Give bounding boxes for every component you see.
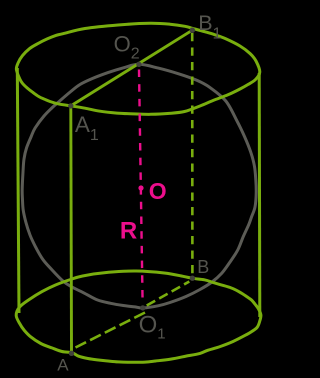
cylinder left generator [17,68,19,313]
point A [69,351,74,356]
hidden generator B B1 (dashed) [191,33,194,275]
cylinder bottom ellipse [16,271,261,362]
point A1 [68,103,73,108]
cylinder top ellipse [16,23,259,114]
axis O2 O1 (dashed magenta) [139,70,143,303]
svg-text:R: R [120,217,137,244]
point O1 [140,305,145,310]
svg-text:A: A [57,356,69,375]
point O2 [136,62,141,67]
svg-text:O: O [149,178,167,204]
point B1 [190,28,195,33]
radius O1 B (dashed) [147,282,190,306]
generator A A1 [69,106,73,353]
point O (magenta) [138,185,143,190]
svg-text:B: B [197,257,209,277]
sphere O inscribed in the cylinder [22,64,256,308]
cylinder right generator [258,73,262,317]
radius O1 A (dashed) [76,313,146,348]
diameter A1 B1 through O2 [71,30,193,106]
point B [190,276,195,281]
